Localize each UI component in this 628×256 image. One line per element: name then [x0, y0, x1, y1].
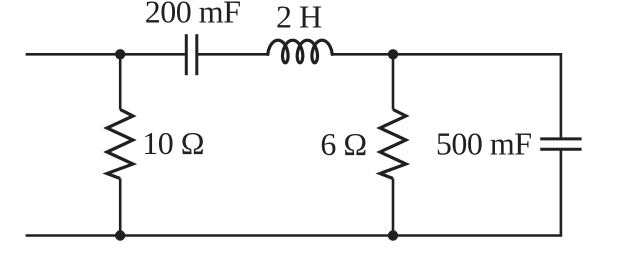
wire inductor to right corner and down to capacitor — [332, 54, 561, 137]
node A junction dot top-left — [115, 49, 125, 59]
wire cap to inductor — [197, 53, 268, 56]
svg-text:500 mF: 500 mF — [436, 125, 532, 161]
capacitor C1 200 mF plates — [186, 34, 197, 75]
wire capacitor bottom then bottom rail to left end — [26, 151, 561, 236]
inductor L1 2 H — [268, 40, 332, 63]
wire node A to resistor 10 ohm — [119, 54, 122, 109]
node D junction dot bottom-right — [388, 230, 398, 240]
capacitor C2 500 mF plates — [540, 139, 581, 149]
node C junction dot bottom-left — [115, 230, 125, 240]
wire resistor 10 ohm to bottom rail — [119, 179, 122, 236]
svg-text:200 mF: 200 mF — [145, 0, 241, 30]
resistor R1 10 ohm zigzag — [107, 110, 133, 179]
wire top-left segment — [26, 53, 187, 56]
svg-text:6 Ω: 6 Ω — [320, 126, 366, 162]
resistor R2 6 ohm zigzag — [380, 110, 406, 179]
svg-text:10 Ω: 10 Ω — [142, 125, 204, 161]
wire node B to resistor 6 ohm — [392, 54, 395, 109]
svg-text:2 H: 2 H — [276, 0, 322, 34]
node B junction dot top-right — [388, 49, 398, 59]
wire resistor 6 ohm to bottom rail — [392, 179, 395, 236]
